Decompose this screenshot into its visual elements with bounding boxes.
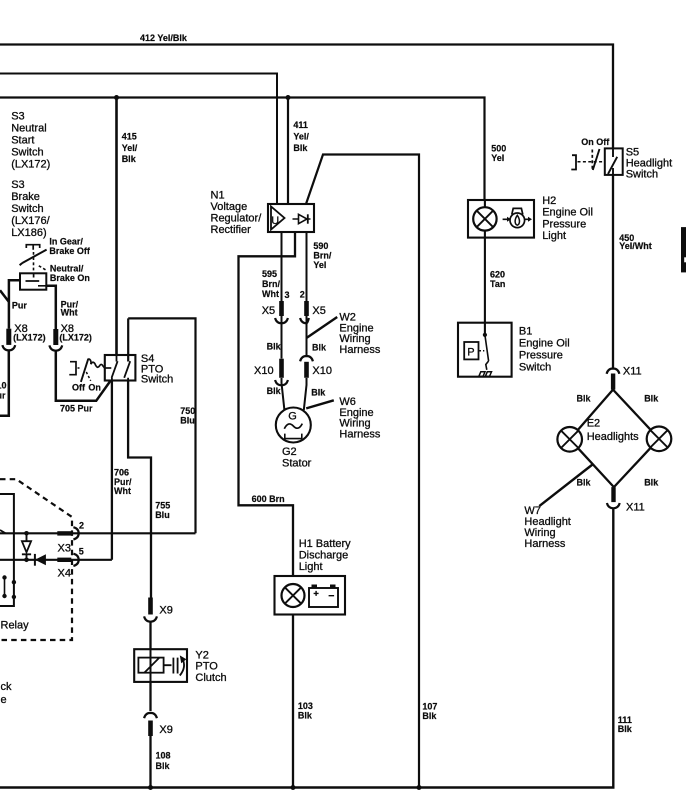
svg-text:108: 108 — [156, 751, 171, 761]
svg-text:Tan: Tan — [490, 279, 505, 289]
svg-text:750: 750 — [180, 406, 195, 416]
svg-text:Blk: Blk — [312, 343, 327, 353]
svg-text:U: U — [271, 215, 279, 227]
svg-text:Brake Off: Brake Off — [49, 246, 91, 256]
svg-text:Pur: Pur — [12, 301, 28, 311]
svg-text:Relay: Relay — [1, 620, 30, 632]
svg-text:500: 500 — [491, 144, 506, 154]
svg-text:PTO: PTO — [195, 661, 218, 673]
svg-text:Brake On: Brake On — [50, 273, 90, 283]
svg-text:Harness: Harness — [339, 428, 380, 440]
svg-text:(LX176/: (LX176/ — [11, 215, 50, 227]
svg-text:B1: B1 — [519, 326, 532, 338]
svg-text:(LX172): (LX172) — [11, 159, 50, 171]
svg-text:Switch: Switch — [11, 203, 43, 215]
svg-text:Discharge: Discharge — [299, 550, 349, 562]
svg-text:2: 2 — [79, 521, 84, 531]
svg-text:In Gear/: In Gear/ — [49, 237, 83, 247]
svg-text:X10: X10 — [312, 365, 332, 377]
svg-text:590: 590 — [313, 241, 328, 251]
svg-text:Switch: Switch — [519, 362, 551, 374]
svg-text:X4: X4 — [58, 568, 71, 580]
svg-text:X3: X3 — [58, 543, 71, 555]
svg-text:Blk: Blk — [293, 143, 308, 153]
svg-text:Blu: Blu — [180, 416, 195, 426]
svg-text:Blk: Blk — [267, 342, 282, 352]
svg-text:411: 411 — [293, 120, 308, 130]
svg-text:Yel/: Yel/ — [293, 132, 309, 142]
svg-text:H1 Battery: H1 Battery — [299, 538, 351, 550]
svg-text:Yel/Wht: Yel/Wht — [619, 241, 652, 251]
svg-text:705 Pur: 705 Pur — [60, 404, 93, 414]
svg-text:Regulator/: Regulator/ — [211, 213, 263, 225]
svg-text:Yel: Yel — [491, 153, 504, 163]
svg-text:(LX172): (LX172) — [59, 333, 92, 343]
svg-text:X5: X5 — [262, 305, 275, 317]
svg-text:Wht: Wht — [262, 289, 279, 299]
svg-text:X11: X11 — [623, 366, 642, 378]
svg-text:Pressure: Pressure — [519, 350, 563, 362]
svg-text:On Off: On Off — [581, 137, 610, 147]
svg-text:2: 2 — [300, 290, 305, 300]
svg-text:Blk: Blk — [577, 394, 592, 404]
svg-text:3: 3 — [285, 290, 290, 300]
svg-text:Light: Light — [542, 230, 566, 242]
svg-text:Brn/: Brn/ — [262, 279, 280, 289]
svg-text:107: 107 — [422, 702, 437, 712]
svg-text:5: 5 — [79, 547, 84, 557]
svg-text:600 Brn: 600 Brn — [252, 494, 285, 504]
svg-text:595: 595 — [262, 269, 277, 279]
svg-text:On: On — [88, 383, 101, 393]
svg-text:H2: H2 — [542, 195, 556, 207]
svg-text:Blk: Blk — [644, 394, 659, 404]
svg-text:755: 755 — [155, 501, 170, 511]
svg-text:412 Yel/Blk: 412 Yel/Blk — [140, 33, 188, 43]
svg-text:E2: E2 — [587, 418, 600, 430]
svg-text:Engine Oil: Engine Oil — [519, 338, 570, 350]
svg-text:620: 620 — [490, 270, 505, 280]
svg-text:Stator: Stator — [282, 458, 312, 470]
svg-text:G: G — [288, 411, 297, 423]
svg-text:Yel/: Yel/ — [122, 143, 138, 153]
svg-text:Voltage: Voltage — [211, 201, 248, 213]
svg-text:P: P — [467, 347, 474, 359]
svg-text:X10: X10 — [254, 365, 274, 377]
svg-text:Pressure: Pressure — [542, 218, 586, 230]
svg-text:Switch: Switch — [11, 147, 43, 159]
svg-text:Wht: Wht — [61, 308, 78, 318]
svg-text:Blk: Blk — [267, 386, 282, 396]
svg-text:X5: X5 — [312, 305, 325, 317]
svg-text:Clutch: Clutch — [195, 672, 226, 684]
svg-text:Light: Light — [299, 561, 323, 573]
svg-text:Blk: Blk — [644, 478, 659, 488]
svg-text:Blk: Blk — [156, 761, 171, 771]
svg-text:S3: S3 — [11, 179, 24, 191]
svg-text:X9: X9 — [159, 724, 172, 736]
svg-text:Start: Start — [11, 135, 34, 147]
svg-text:X9: X9 — [159, 605, 172, 617]
svg-text:Brake: Brake — [11, 191, 40, 203]
svg-text:Blk: Blk — [422, 711, 437, 721]
svg-text:Engine Oil: Engine Oil — [542, 207, 593, 219]
svg-text:Blk: Blk — [577, 478, 592, 488]
svg-text:Wht: Wht — [114, 486, 131, 496]
svg-text:Off: Off — [72, 383, 86, 393]
svg-text:ur: ur — [0, 391, 6, 401]
svg-text:10: 10 — [0, 381, 7, 391]
svg-text:Switch: Switch — [626, 169, 658, 181]
svg-text:N1: N1 — [211, 190, 225, 202]
svg-text:LX186): LX186) — [11, 227, 46, 239]
svg-text:Neutral: Neutral — [11, 123, 46, 135]
svg-text:415: 415 — [122, 132, 137, 142]
svg-text:G2: G2 — [282, 446, 297, 458]
svg-text:103: 103 — [298, 701, 313, 711]
svg-text:Blk: Blk — [298, 711, 313, 721]
svg-text:Blu: Blu — [155, 510, 170, 520]
svg-text:Yel: Yel — [313, 260, 326, 270]
svg-text:Rectifier: Rectifier — [211, 224, 252, 236]
svg-text:Blk: Blk — [122, 154, 137, 164]
svg-text:S3: S3 — [11, 111, 24, 123]
svg-text:Harness: Harness — [524, 538, 565, 550]
svg-text:Neutral/: Neutral/ — [50, 264, 84, 274]
svg-text:Harness: Harness — [339, 344, 380, 356]
svg-text:Blk: Blk — [311, 388, 326, 398]
svg-text:Headlights: Headlights — [587, 431, 639, 443]
svg-text:X11: X11 — [626, 502, 645, 514]
svg-text:706: 706 — [114, 468, 129, 478]
svg-text:(LX172): (LX172) — [13, 333, 46, 343]
svg-text:Blk: Blk — [618, 724, 633, 734]
svg-text:ck: ck — [1, 681, 13, 693]
svg-text:e: e — [1, 694, 7, 706]
svg-text:Brn/: Brn/ — [313, 251, 331, 261]
svg-text:Switch: Switch — [141, 374, 173, 386]
